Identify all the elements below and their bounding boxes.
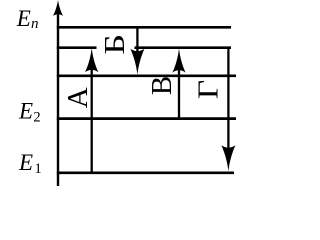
svg-text:E: E	[18, 99, 33, 124]
svg-text:E: E	[18, 150, 33, 175]
svg-text:Б: Б	[99, 34, 131, 55]
svg-text:1: 1	[35, 161, 42, 177]
svg-text:2: 2	[33, 110, 40, 126]
svg-text:n: n	[31, 16, 39, 32]
svg-text:В: В	[146, 76, 178, 95]
svg-text:Г: Г	[191, 80, 223, 99]
svg-text:E: E	[16, 6, 31, 31]
svg-text:А: А	[62, 87, 94, 108]
